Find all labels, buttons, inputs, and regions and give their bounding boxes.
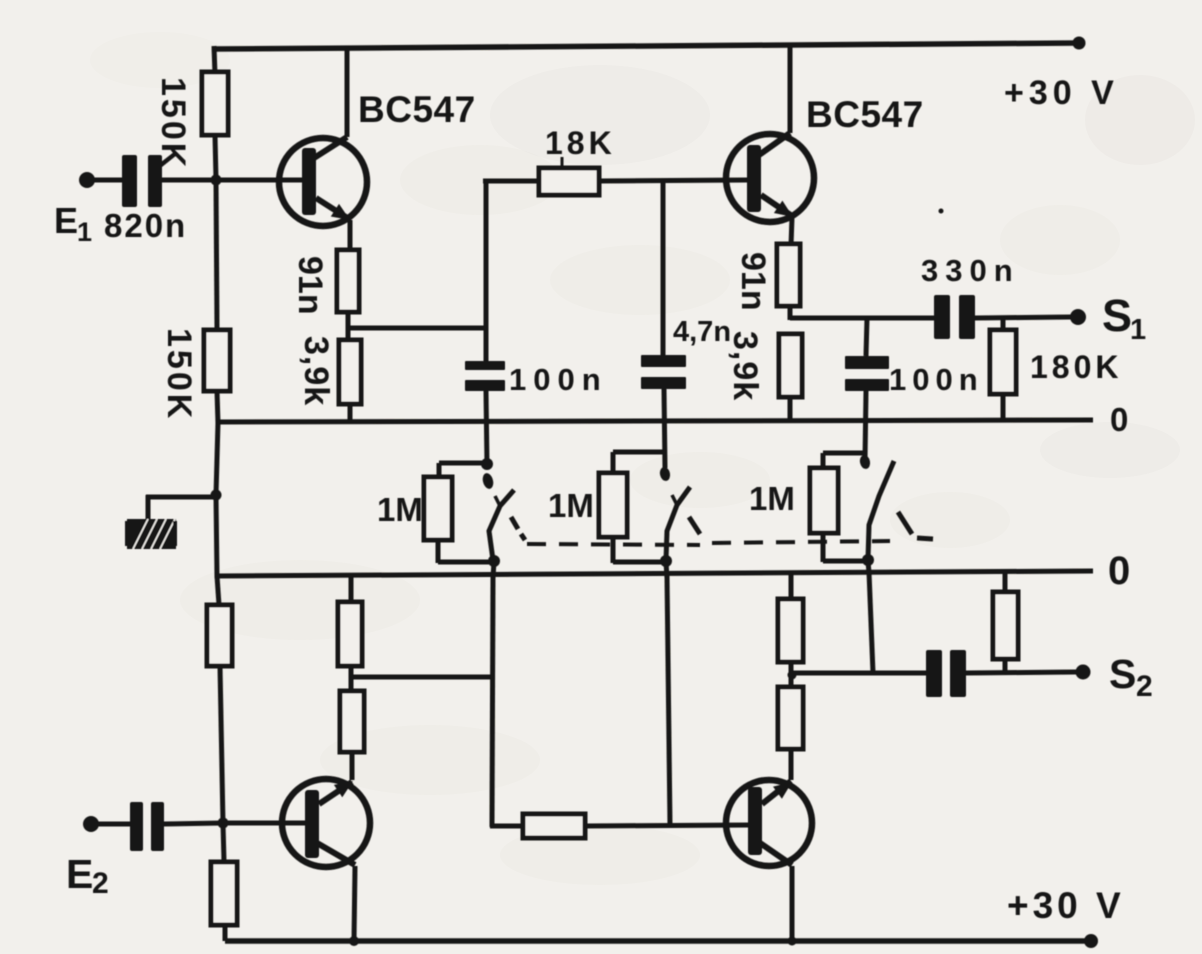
- svg-text:100n: 100n: [509, 362, 608, 397]
- svg-text:150K: 150K: [160, 328, 198, 421]
- svg-text:2: 2: [92, 867, 110, 900]
- svg-text:S: S: [1109, 651, 1137, 697]
- svg-text:E: E: [54, 200, 79, 241]
- svg-text:S: S: [1102, 290, 1133, 341]
- svg-text:1: 1: [77, 217, 93, 247]
- svg-text:3,9k: 3,9k: [726, 331, 764, 401]
- svg-text:820n: 820n: [104, 207, 187, 244]
- svg-text:+30 V: +30 V: [1004, 74, 1119, 112]
- svg-text:1M: 1M: [377, 491, 423, 528]
- svg-text:91n: 91n: [734, 252, 772, 311]
- svg-text:0: 0: [1108, 549, 1131, 593]
- svg-text:4,7n: 4,7n: [673, 316, 731, 348]
- svg-text:1M: 1M: [749, 480, 795, 517]
- svg-text:0: 0: [1110, 401, 1129, 438]
- svg-text:91n: 91n: [291, 256, 329, 315]
- svg-text:2: 2: [1136, 670, 1154, 703]
- svg-text:BC547: BC547: [806, 94, 924, 135]
- svg-text:150K: 150K: [154, 77, 192, 170]
- svg-text:18K: 18K: [545, 125, 616, 161]
- svg-text:1M: 1M: [548, 487, 594, 524]
- svg-text:E: E: [66, 851, 94, 897]
- svg-text:100n: 100n: [889, 362, 984, 397]
- svg-text:330n: 330n: [921, 253, 1020, 288]
- svg-text:180K: 180K: [1030, 349, 1123, 385]
- svg-text:3,9k: 3,9k: [297, 336, 335, 406]
- svg-text:BC547: BC547: [358, 89, 476, 130]
- svg-text:+30 V: +30 V: [1007, 885, 1125, 926]
- svg-text:1: 1: [1130, 314, 1147, 346]
